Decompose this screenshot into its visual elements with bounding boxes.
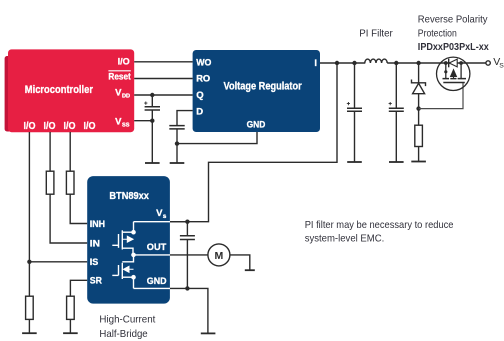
zener diode D1 triangle <box>413 83 425 93</box>
transistor Q2 source stub <box>122 248 133 255</box>
capacitor C1 polarity plus <box>144 102 147 105</box>
transistor Q2 gate bar <box>118 234 120 248</box>
resistor R4 (IS to ground) <box>26 296 34 319</box>
node Q1 drain on rail <box>444 61 448 65</box>
transistor Q3 channel <box>121 263 123 279</box>
resistor R1 (IN series) <box>46 171 54 194</box>
capacitor C4 wire top <box>395 63 397 108</box>
ground (half-bridge) <box>201 332 216 334</box>
node Vs capacitor junction <box>185 220 189 224</box>
svg-text:High-Current: High-Current <box>99 313 155 325</box>
svg-text:Reset: Reset <box>108 72 131 83</box>
output terminal circle <box>486 61 490 65</box>
Q1 body diode triangle <box>449 59 457 67</box>
voltage regulator U2 body <box>193 50 320 132</box>
microcontroller accent bar <box>5 56 13 132</box>
motor M1 circle <box>208 244 230 266</box>
svg-text:I/O: I/O <box>118 56 130 67</box>
wire supply rail after inductor <box>387 62 485 64</box>
ground (C3) <box>347 161 362 163</box>
node OUT junction <box>131 253 136 258</box>
svg-text:I: I <box>314 58 317 69</box>
transistor Q1 reverse-polarity MOSFET circle <box>437 57 470 90</box>
transistor Q2 gate lead <box>112 244 118 246</box>
half-bridge internal trunk upper <box>133 222 135 233</box>
node Q3 source junction <box>131 275 136 280</box>
svg-text:SS: SS <box>122 122 130 128</box>
capacitor C3 wire top <box>354 63 356 108</box>
wire I/O2 to IN <box>50 194 87 243</box>
ground (R4) <box>22 332 37 334</box>
svg-text:GND: GND <box>147 276 167 287</box>
resistor R3 wire to ground <box>418 147 420 162</box>
wire half-bridge supply feed <box>170 63 337 222</box>
transistor Q3 gate bar <box>118 265 120 275</box>
capacitor C4 plates <box>389 108 404 111</box>
svg-text:Half-Bridge: Half-Bridge <box>99 328 147 340</box>
wire VDD to Q <box>134 94 192 96</box>
ground (C1) <box>145 162 160 164</box>
Q1 body diode bar <box>448 59 450 68</box>
svg-text:RO: RO <box>196 74 210 85</box>
zener diode D1 cathode bar <box>412 80 426 87</box>
svg-text:IS: IS <box>90 257 99 268</box>
resistor R5 (SR to ground) <box>67 296 75 319</box>
half-bridge internal GND rail <box>134 287 171 289</box>
svg-text:Reverse Polarity: Reverse Polarity <box>418 14 488 26</box>
transistor Q2 channel <box>121 230 123 249</box>
svg-text:GND: GND <box>247 120 266 131</box>
wire VSS stub <box>134 120 152 122</box>
half-bridge internal OUT rail <box>134 254 171 256</box>
ground (C2) <box>170 162 185 164</box>
inductor L1 <box>365 59 387 63</box>
svg-text:S: S <box>499 63 504 70</box>
wire supply rail from I pin <box>320 62 365 64</box>
svg-text:Voltage Regulator: Voltage Regulator <box>224 80 303 92</box>
wire D pin to C2 <box>177 111 193 125</box>
capacitor C3 wire bottom <box>354 111 356 162</box>
wire Vs pin to supply <box>170 221 187 223</box>
svg-text:WO: WO <box>196 58 211 69</box>
half-bridge internal trunk lower <box>133 277 135 288</box>
node VSS junction <box>150 119 154 123</box>
node rail junction C4 <box>394 61 398 65</box>
transistor Q3 (low-side) drain stub <box>122 255 133 262</box>
wire regulator GND return <box>177 132 257 144</box>
capacitor C2 plates <box>169 126 184 129</box>
transistor Q3 source stub <box>122 276 133 278</box>
wire MOSFET gate to zener node <box>419 83 463 109</box>
Q1 body arrow <box>451 70 457 79</box>
svg-text:DD: DD <box>122 94 130 100</box>
node Q1 source on rail <box>459 61 463 65</box>
capacitor C5 wire bottom <box>186 240 188 289</box>
capacitor C2 wire bottom <box>176 129 178 163</box>
node zener/resistor/gate junction <box>416 106 420 110</box>
Reset overline <box>108 70 130 72</box>
wire MCU I/O2 drop top <box>49 132 51 171</box>
capacitor C3 plates <box>347 108 362 111</box>
transistor Q2 body arrow <box>122 236 133 242</box>
wire OUT row to motor <box>170 254 208 256</box>
resistor R5 wire to ground <box>69 319 71 333</box>
wire Reset to RO <box>134 78 192 80</box>
resistor R3 (gate pulldown) <box>415 125 423 146</box>
capacitor C5 wire top <box>186 222 188 236</box>
resistor R2 (INH series) <box>66 171 74 194</box>
resistor R4 wire to ground <box>28 319 30 333</box>
node C5 to GND junction <box>185 286 189 290</box>
Q1 drain contact <box>445 63 447 79</box>
zener diode D1 wire <box>418 63 420 125</box>
svg-text:M: M <box>215 250 224 262</box>
svg-text:PI Filter: PI Filter <box>359 27 393 39</box>
svg-text:I/O: I/O <box>64 121 76 132</box>
wire IS row <box>29 261 87 263</box>
Q1 channel bar <box>443 78 467 80</box>
Q1 gate bar <box>443 82 465 84</box>
svg-text:BTN89xx: BTN89xx <box>109 191 149 202</box>
svg-text:system-level EMC.: system-level EMC. <box>305 232 385 244</box>
wire MCU I/O3 drop top <box>69 132 71 171</box>
capacitor C5 plates <box>180 236 195 240</box>
wire MCU I/O1 drop <box>28 132 30 296</box>
svg-text:I/O: I/O <box>84 121 96 132</box>
svg-text:Microcontroller: Microcontroller <box>25 84 94 96</box>
node C2/GND junction <box>175 141 179 145</box>
ground (R5) <box>63 332 78 334</box>
node rail junction zener <box>416 61 420 65</box>
capacitor C1 plates <box>145 107 160 110</box>
wire I/O to WO <box>134 61 192 63</box>
transistor Q2 (high-side) drain stub <box>122 231 133 233</box>
wire GND row <box>170 288 208 333</box>
svg-text:OUT: OUT <box>147 242 167 253</box>
node rail junction C3 <box>352 61 356 65</box>
svg-text:PI filter may be necessary to: PI filter may be necessary to reduce <box>305 219 454 231</box>
wire SR <box>70 280 87 296</box>
capacitor C1 wire bottom to ground <box>151 110 153 163</box>
svg-text:s: s <box>163 213 167 220</box>
microcontroller U1 body <box>8 49 134 132</box>
capacitor C1 (VDD decoupling) wire top <box>151 95 153 106</box>
wire motor to ground <box>230 255 250 270</box>
capacitor C4 wire bottom <box>395 111 397 162</box>
svg-text:IN: IN <box>90 238 100 249</box>
node Q2 drain junction <box>131 230 136 235</box>
transistor Q3 gate lead <box>112 274 118 276</box>
capacitor C4 polarity plus <box>389 102 392 105</box>
svg-text:D: D <box>196 107 203 118</box>
svg-text:Q: Q <box>196 90 203 101</box>
ground (motor) <box>245 269 255 271</box>
ground (R3) <box>411 161 426 163</box>
half-bridge U3 body BTN89xx <box>87 176 170 304</box>
node VDD junction <box>150 93 154 97</box>
ground (C4) <box>389 161 404 163</box>
svg-text:I/O: I/O <box>24 121 36 132</box>
svg-text:I/O: I/O <box>44 121 56 132</box>
svg-text:INH: INH <box>90 219 105 230</box>
node Q1 drain inner <box>444 70 447 73</box>
svg-text:SR: SR <box>90 276 102 287</box>
Q1 source contact <box>460 63 462 79</box>
node I/O1 to IS junction <box>27 260 31 264</box>
svg-text:IPDxxP03PxL-xx: IPDxxP03PxL-xx <box>418 41 489 53</box>
svg-text:Protection: Protection <box>418 27 457 39</box>
transistor Q3 body arrow <box>123 266 133 272</box>
capacitor C3 polarity plus <box>347 102 350 105</box>
node rail junction to half-bridge supply <box>335 61 339 65</box>
wire I/O3 to INH <box>70 194 87 223</box>
half-bridge internal Vs rail <box>134 221 171 223</box>
